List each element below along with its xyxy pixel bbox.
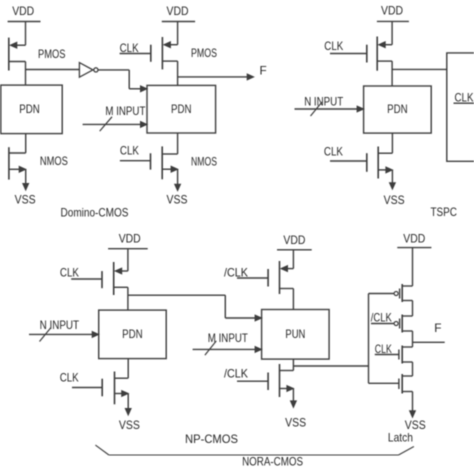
wire VDD rail to PMOS drain <box>25 22 27 46</box>
transistor PMOS (NP stage) <box>102 262 128 295</box>
transistor NMOS (PUN stage) <box>268 364 293 397</box>
transistor NMOS (NP stage) <box>102 372 128 405</box>
wire latch output F <box>413 341 445 343</box>
wire N INPUT into PDN (TSPC) <box>295 108 359 110</box>
svg-text:PMOS: PMOS <box>38 47 66 61</box>
wire to second stage box (TSPC) <box>392 68 447 70</box>
svg-text:CLK: CLK <box>60 266 79 280</box>
wire M INPUT into PUN box <box>193 348 257 350</box>
wire PDN box to NMOS drain (TSPC) <box>391 133 393 153</box>
wire VDD rail to PMOS drain (TSPC) <box>391 21 393 44</box>
transistor N1 (latch, CLK gate) <box>399 346 413 364</box>
wire NMOS source to VSS arrow (NP stage) <box>127 394 129 409</box>
block PDN (Domino stage 2) <box>147 85 216 133</box>
svg-text:PUN: PUN <box>285 327 305 341</box>
wire /CLK to P2 gate bubble (latch) <box>371 323 394 325</box>
block PUN <box>262 310 330 360</box>
svg-text:M INPUT: M INPUT <box>208 331 248 345</box>
wire inverter output down <box>128 70 130 89</box>
block PDN (TSPC) <box>364 86 432 133</box>
svg-text:CLK: CLK <box>455 90 474 104</box>
VDD rail (NP stage) <box>108 248 148 250</box>
svg-text:PMOS: PMOS <box>191 46 217 60</box>
svg-text:VSS: VSS <box>285 416 306 430</box>
wire N1 source to N2 drain <box>412 362 414 376</box>
svg-text:NP-CMOS: NP-CMOS <box>185 432 238 446</box>
wire CLK to NMOS gate (TSPC) <box>330 160 367 162</box>
svg-text:VDD: VDD <box>283 233 305 247</box>
wire PUN output to latch <box>293 365 368 367</box>
wire input bus to N2 gate (latch) <box>369 382 399 384</box>
wire PMOS source down to PUN box <box>292 289 294 310</box>
transistor P1 (latch, input gate with bubble) <box>394 284 412 302</box>
wire PMOS source down to PDN box (NP stage) <box>127 287 129 310</box>
svg-text:PDN: PDN <box>19 102 40 116</box>
svg-text:PDN: PDN <box>122 327 143 341</box>
bus slash on N INPUT wire (NP stage) <box>40 328 52 342</box>
wire /CLK to PMOS gate (PUN stage) <box>237 277 268 279</box>
wire NMOS source to VSS arrow (stage 2) <box>177 169 179 184</box>
VDD rail (PUN stage) <box>277 249 312 251</box>
svg-text:CLK: CLK <box>324 39 343 53</box>
wire NMOS source to VSS arrow <box>25 169 27 183</box>
wire /CLK to NMOS gate (PUN stage) <box>237 380 268 382</box>
wire PMOS source down to PDN box <box>25 62 27 86</box>
VDD rail (Domino stage 2) <box>162 21 195 23</box>
brace left end (NORA-CMOS) <box>95 445 109 455</box>
svg-text:CLK: CLK <box>324 145 343 159</box>
svg-text:/CLK: /CLK <box>371 311 392 325</box>
svg-text:Latch: Latch <box>388 431 413 445</box>
bus slash on M INPUT wire (PUN stage) <box>205 341 216 355</box>
wire N INPUT into PDN (NP stage) <box>29 333 93 335</box>
wire NP stage output <box>128 294 225 296</box>
wire CLK to NMOS gate (NP stage) <box>72 387 102 389</box>
wire PDN box to NMOS drain (NP stage) <box>127 359 129 379</box>
VDD rail (Domino stage 1) <box>8 21 41 23</box>
wire P2 source to N1 drain <box>412 331 414 347</box>
bus slash on M INPUT wire <box>100 117 112 131</box>
inverter (static buffer) <box>79 63 98 78</box>
wire CLK to N1 gate (latch) <box>375 354 399 356</box>
svg-text:Domino-CMOS: Domino-CMOS <box>61 206 129 220</box>
transistor NMOS (TSPC) <box>367 147 393 179</box>
svg-text:VDD: VDD <box>119 231 141 245</box>
svg-text:VSS: VSS <box>167 193 188 207</box>
VDD rail (latch) <box>397 247 431 249</box>
svg-text:NORA-CMOS: NORA-CMOS <box>242 454 303 468</box>
svg-text:F: F <box>260 63 267 77</box>
wire into stage-2 PDN with arrow <box>129 88 141 90</box>
wire latch input to P1 gate <box>369 293 395 295</box>
wire NP output step down <box>224 295 226 318</box>
wire CLK to PMOS gate (stage 2) <box>120 53 151 55</box>
transistor PMOS (TSPC) <box>367 37 392 71</box>
transistor NMOS (Domino stage 2) <box>151 146 178 179</box>
wire to inverter input <box>26 69 80 71</box>
svg-text:VDD: VDD <box>167 4 189 18</box>
wire output F <box>178 76 248 78</box>
svg-text:VDD: VDD <box>403 231 425 245</box>
transistor PMOS (Domino stage 2) <box>151 37 178 69</box>
wire CLK to PMOS gate (NP stage) <box>71 278 102 280</box>
wire PDN box to NMOS drain (stage 2) <box>177 133 179 154</box>
svg-text:N INPUT: N INPUT <box>40 318 80 332</box>
wire CLK gate line (TSPC second stage) <box>454 102 474 104</box>
wire VDD rail to PMOS drain (stage 2) <box>177 22 179 45</box>
svg-text:TSPC: TSPC <box>430 205 457 219</box>
transistor N2 (latch, input gate) <box>399 374 413 394</box>
VDD rail (TSPC) <box>377 20 409 22</box>
brace horizontal (NORA-CMOS) <box>109 454 399 456</box>
block PDN (NP stage) <box>99 310 167 359</box>
transistor PMOS (PUN stage) <box>268 261 293 294</box>
wire NMOS source to VSS arrow (TSPC) <box>391 170 393 183</box>
svg-text:CLK: CLK <box>60 371 79 385</box>
svg-text:N INPUT: N INPUT <box>304 95 343 109</box>
svg-text:VSS: VSS <box>119 418 140 432</box>
wire CLK to NMOS gate (stage 2) <box>120 160 151 162</box>
svg-text:NMOS: NMOS <box>191 155 217 169</box>
svg-text:M INPUT: M INPUT <box>105 104 145 118</box>
svg-text:F: F <box>434 321 441 335</box>
wire PUN box to NMOS drain <box>292 359 294 370</box>
wire latch input bus <box>368 294 370 384</box>
svg-text:VDD: VDD <box>381 3 403 17</box>
wire M INPUT into PDN (stage 2) <box>83 123 142 125</box>
svg-text:NMOS: NMOS <box>40 154 68 168</box>
svg-text:VSS: VSS <box>384 193 405 207</box>
wire NMOS source to VSS arrow (PUN stage) <box>292 389 294 402</box>
block second stage (TSPC, clipped) <box>447 53 474 161</box>
wire CLK to PMOS gate (TSPC) <box>330 53 367 55</box>
wire P1 source to P2 drain <box>412 301 414 317</box>
wire inverter output <box>98 69 129 71</box>
svg-text:CLK: CLK <box>120 41 139 55</box>
wire NP output into PUN box <box>225 317 256 319</box>
wire PMOS source down to PDN box (TSPC) <box>391 61 393 86</box>
wire N2 source to VSS arrow (latch) <box>412 392 414 411</box>
block PDN (Domino stage 1) <box>1 85 62 134</box>
svg-text:VDD: VDD <box>12 4 34 18</box>
transistor NMOS (Domino stage 1) <box>9 147 26 179</box>
wire PDN box to NMOS drain <box>25 134 27 153</box>
transistor PMOS (Domino stage 1) <box>9 38 26 71</box>
svg-text:PDN: PDN <box>171 102 192 116</box>
svg-text:PDN: PDN <box>387 102 408 116</box>
brace right end (NORA-CMOS) <box>399 447 414 456</box>
svg-text:CLK: CLK <box>120 143 139 157</box>
wire VDD rail to PMOS drain (NP stage) <box>127 249 129 271</box>
wire VDD rail to latch transistor chain <box>412 248 414 286</box>
bus slash on N INPUT wire (TSPC) <box>311 102 323 116</box>
svg-text:/CLK: /CLK <box>224 367 248 381</box>
svg-text:VSS: VSS <box>15 192 36 206</box>
wire VDD rail to PMOS drain (PUN stage) <box>292 250 294 269</box>
wire PMOS source down to PDN box (stage 2) <box>177 61 179 85</box>
transistor P2 (latch, /CLK gate with bubble) <box>394 315 412 333</box>
